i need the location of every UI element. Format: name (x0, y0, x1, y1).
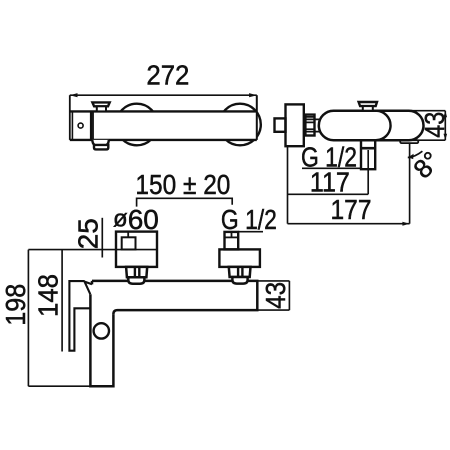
right outline vertical (top view) (256, 95, 258, 140)
right union nut (front view) (229, 267, 251, 277)
spout bowl under body (top view) (92, 140, 109, 147)
diverter knob circle (front view) (94, 323, 109, 338)
wall flange circle left (top view) (116, 104, 158, 146)
right stub inner line (front view) (231, 232, 233, 238)
right stub divider (front view) (225, 236, 239, 238)
shower outlet tube (side view) (361, 140, 375, 169)
svg-text:177: 177 (331, 194, 372, 225)
svg-text:43: 43 (419, 112, 450, 138)
neck between nut and body (side view) (315, 119, 320, 131)
lever handle (front view) (69, 281, 92, 351)
lever end cap strip (top view) (71, 111, 73, 139)
G 1/2 leader underline (side view) (302, 167, 361, 169)
left union nut (front view) (126, 267, 147, 277)
lever screw dot (top view) (78, 123, 83, 128)
arrow right of dimension 272 (249, 93, 257, 97)
dimension 150 line (137, 198, 233, 206)
eccentric square inside flange (front view) (122, 237, 136, 249)
spout column (front view) (90, 294, 113, 386)
left supply flange (front view) (116, 232, 157, 267)
bottom line of spout and 198 bracket (28, 385, 90, 387)
inner body arc (side view) (376, 111, 391, 141)
right collar bulge (front view) (232, 277, 247, 284)
svg-text:G 1/2: G 1/2 (221, 204, 277, 235)
svg-text:148: 148 (33, 274, 64, 317)
cartridge cap stem (side view) (363, 106, 373, 111)
svg-text:43: 43 (260, 282, 291, 309)
dimension 177 line (288, 223, 410, 225)
right supply flange (front view) (219, 249, 260, 267)
right stub leader line (front view) (238, 231, 263, 233)
arrow right dimension 177 (402, 222, 409, 226)
outlet tube collar (side view) (361, 147, 375, 150)
dimension 25 extension line (101, 218, 103, 258)
outlet axis extension (side view) (367, 150, 369, 194)
dimension 43 extension bottom (side view) (408, 139, 445, 141)
arrow on 8 degree arc (408, 154, 414, 159)
svg-text:ø: ø (113, 205, 128, 232)
eccentric stem line (front view) (127, 232, 129, 238)
union nut (side view) (305, 115, 314, 136)
8 degree arc (408, 151, 423, 157)
wall supply stub (side view) (275, 118, 286, 131)
dimension 198 bracket (27, 250, 29, 387)
dimension 43 box (front view) (257, 281, 289, 310)
arrow left of dimension 272 (70, 93, 78, 97)
union nut ridges (side view) (305, 117, 314, 132)
dimension 148 bracket (61, 250, 63, 352)
dimension 117 line (288, 193, 369, 195)
spout end extension line (side view) (409, 143, 411, 224)
dimension 43 extension top (side view) (408, 110, 445, 112)
dimension 43 line (side view) (444, 111, 446, 141)
wall flange (side view) (286, 104, 304, 146)
left outline vertical (top view) (69, 95, 71, 140)
left nut facets (front view) (135, 267, 139, 277)
wall flange circle right (top view) (219, 104, 261, 146)
aerator nub (side view) (400, 140, 418, 143)
arrow up dimension 43 (side view) (444, 111, 448, 118)
joint line right of lever (top view) (92, 111, 94, 139)
cartridge cap stem (top view) (97, 106, 106, 111)
spout outlet block (top view) (94, 145, 108, 150)
arrow down dimension 43 (side view) (444, 134, 448, 141)
svg-text:150 ± 20: 150 ± 20 (135, 169, 230, 200)
svg-text:25: 25 (72, 218, 103, 249)
left collar bulge (front view) (128, 277, 144, 284)
right nut facets (front view) (238, 267, 242, 277)
wall line through flange (front view) (28, 249, 157, 251)
body bar top edge (top view) (70, 110, 257, 112)
svg-text:198: 198 (0, 284, 31, 326)
cartridge cap (top view) (92, 102, 109, 106)
body bar (front view) (92, 281, 257, 314)
svg-text:272: 272 (146, 60, 189, 91)
cartridge cap (side view) (359, 102, 377, 106)
dimension line 272 (70, 94, 257, 96)
right G 1/2 stub (front view) (225, 232, 239, 250)
svg-text:117: 117 (310, 167, 350, 198)
body capsule (side view) (319, 111, 424, 141)
body bar (top view) white cover (70, 111, 257, 139)
body bar bottom edge (top view) (70, 139, 257, 141)
lever right edge (top view) (90, 111, 92, 139)
wall extension line (side view) (287, 146, 289, 224)
